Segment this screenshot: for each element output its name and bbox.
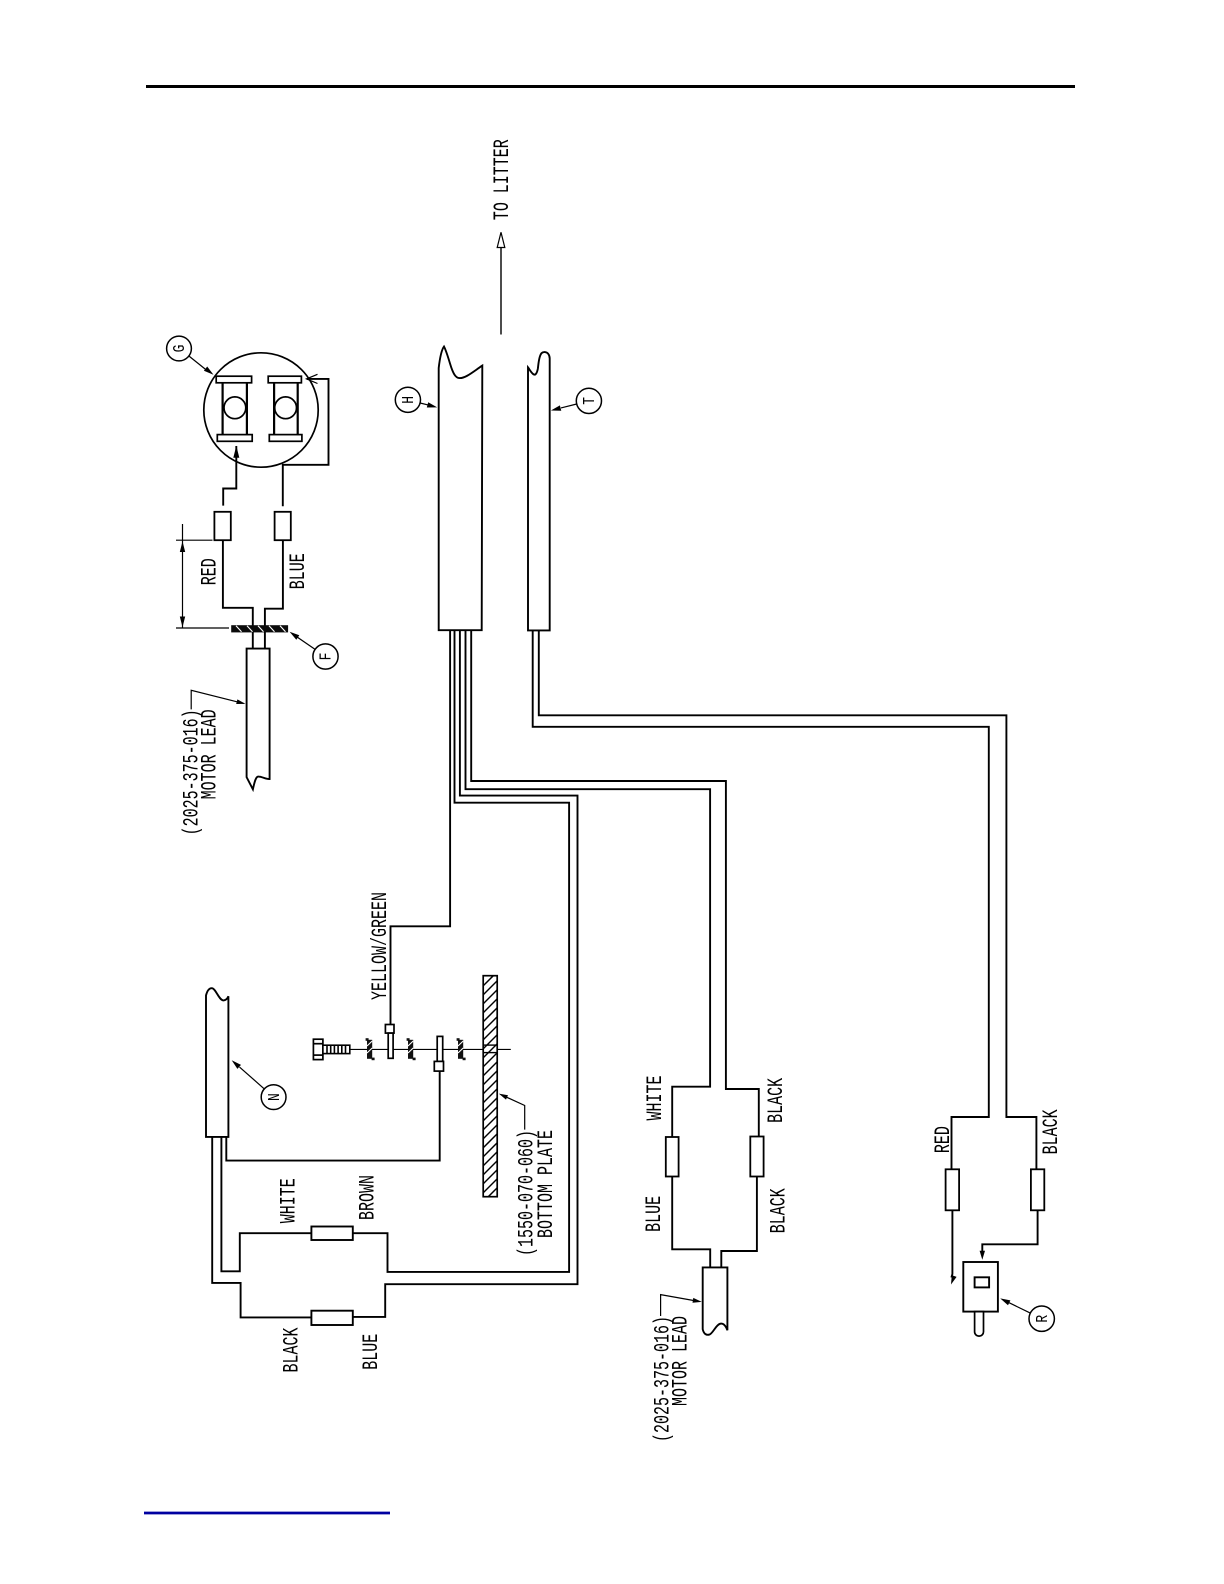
svg-text:R: R (1035, 1315, 1053, 1323)
terminal RED (switch side) (946, 1169, 960, 1210)
terminal BLACK (switch side) (1031, 1169, 1044, 1210)
terminal WHITE (motor lead 2) (666, 1137, 679, 1177)
lock washer 2 (407, 1038, 416, 1060)
svg-text:H: H (401, 396, 419, 404)
label F balloon (313, 644, 338, 669)
label R balloon (1029, 1306, 1054, 1331)
switch R toggle lever (975, 1312, 984, 1337)
dimension line (176, 524, 229, 628)
label (2025-375-016) MOTOR LEAD (bottom) (650, 1316, 694, 1442)
svg-text:BLUE: BLUE (358, 1334, 384, 1370)
label N balloon (261, 1085, 286, 1110)
svg-text:G: G (172, 345, 190, 353)
leader for motor lead 2 (661, 1295, 702, 1316)
motor housing circle (brush assembly G) (204, 353, 318, 467)
brush holder right side bars (274, 383, 298, 435)
svg-text:MOTOR LEAD: MOTOR LEAD (197, 709, 223, 799)
dimension arrowheads (180, 541, 185, 627)
ring terminal 2 (ground lead) (434, 1036, 443, 1071)
brush holder right bottom cap (269, 435, 302, 442)
motor lead sleeve 1 (below F) (247, 649, 270, 790)
svg-text:YELLOW/GREEN: YELLOW/GREEN (367, 892, 393, 1000)
leader for motor lead 1 (191, 690, 245, 709)
label (1550-070-060) BOTTOM PLATE (514, 1130, 559, 1256)
terminal RED (G side) (214, 512, 230, 540)
svg-text:WHITE: WHITE (642, 1076, 668, 1121)
wire red lead with up arrow into brush (223, 446, 239, 506)
wire from RED terminal to splice (223, 540, 253, 648)
wire N2 white to connector 1 (221, 1137, 311, 1271)
bottom plate (hatched) (479, 968, 501, 1215)
svg-text:F: F (319, 653, 337, 661)
svg-text:BROWN: BROWN (355, 1175, 381, 1220)
wire H1 yellow/green to ring terminal (391, 630, 451, 1024)
svg-text:TO LITTER: TO LITTER (489, 139, 515, 220)
svg-text:BLACK: BLACK (279, 1327, 305, 1373)
wire red into switch (951, 1210, 957, 1284)
wire blue to motor lead 2 (672, 1177, 710, 1268)
svg-text:RED: RED (930, 1126, 956, 1153)
top border rule (146, 85, 1075, 88)
brush holder left top cap (216, 376, 251, 383)
bolt threads (323, 1045, 350, 1053)
label H balloon (395, 387, 420, 412)
connector 1 (white/brown) (311, 1227, 352, 1241)
wire H3 blue branch (353, 630, 578, 1317)
svg-text:BLACK: BLACK (766, 1188, 792, 1234)
wire T1 red branch (533, 630, 989, 1169)
TO LITTER arrow (497, 232, 505, 334)
leader arrow from R to switch (1000, 1298, 1030, 1313)
splice hatch bar F (231, 625, 288, 632)
svg-text:WHITE: WHITE (276, 1178, 302, 1223)
label (2025-375-016) MOTOR LEAD (left) (179, 709, 223, 835)
svg-text:BLUE: BLUE (285, 553, 311, 589)
wire H5 black branch (471, 630, 759, 1136)
svg-text:T: T (582, 397, 600, 405)
wire N1 black to connector 2 (212, 1137, 311, 1318)
leader arrow from N to sleeve (232, 1060, 265, 1089)
cable sleeve N (206, 988, 228, 1137)
brush holder right top cap (268, 376, 301, 383)
wire blue lead with open arrow into right brush cap (283, 374, 329, 506)
svg-text:BOTTOM PLATE: BOTTOM PLATE (534, 1130, 560, 1238)
leader arrow from H to sleeve (420, 402, 437, 407)
wire N3 ground to ring terminal 2 (226, 1071, 439, 1161)
ring terminal 1 (yellow/green) (385, 1025, 394, 1059)
svg-text:MOTOR LEAD: MOTOR LEAD (668, 1316, 694, 1406)
brush left circle (224, 397, 246, 419)
cable sleeve H (439, 347, 483, 631)
lock washer 1 (366, 1038, 375, 1060)
wire T2 black branch (539, 630, 1037, 1169)
svg-text:RED: RED (197, 558, 223, 585)
svg-text:BLACK: BLACK (763, 1077, 789, 1123)
switch R contact window (975, 1277, 990, 1287)
bottom link rule (blue) (144, 1512, 390, 1515)
label G balloon (167, 336, 192, 361)
wire black to motor lead 2 (721, 1177, 757, 1268)
brush holder left bottom cap (217, 435, 252, 442)
svg-text:N: N (267, 1093, 285, 1101)
wire from BLUE terminal to splice (265, 540, 283, 648)
wire black into switch (980, 1210, 1038, 1260)
leader for bottom plate (499, 1094, 525, 1130)
svg-text:BLACK: BLACK (1039, 1109, 1065, 1155)
label T balloon (576, 388, 601, 413)
terminal BLUE (G side) (275, 512, 291, 540)
connector 2 (black/blue) (311, 1311, 352, 1325)
leader arrow from G to brush cap (189, 356, 214, 375)
motor lead sleeve 2 (703, 1267, 728, 1334)
leader arrow from F to hatch bar (290, 632, 316, 650)
wire H2 brown branch (353, 630, 569, 1272)
wire H4 white branch (466, 630, 711, 1137)
cable sleeve T (528, 352, 550, 630)
brush right circle (275, 397, 297, 419)
svg-text:BLUE: BLUE (641, 1196, 667, 1232)
leader arrow from T to sleeve (551, 404, 577, 411)
bolt centerline (350, 1048, 511, 1050)
switch R body (963, 1262, 998, 1312)
terminal BLACK (motor lead 2) (750, 1137, 763, 1177)
brush holder left side bars (223, 383, 247, 435)
lock washer 3 (457, 1038, 466, 1060)
bolt head (313, 1039, 323, 1059)
